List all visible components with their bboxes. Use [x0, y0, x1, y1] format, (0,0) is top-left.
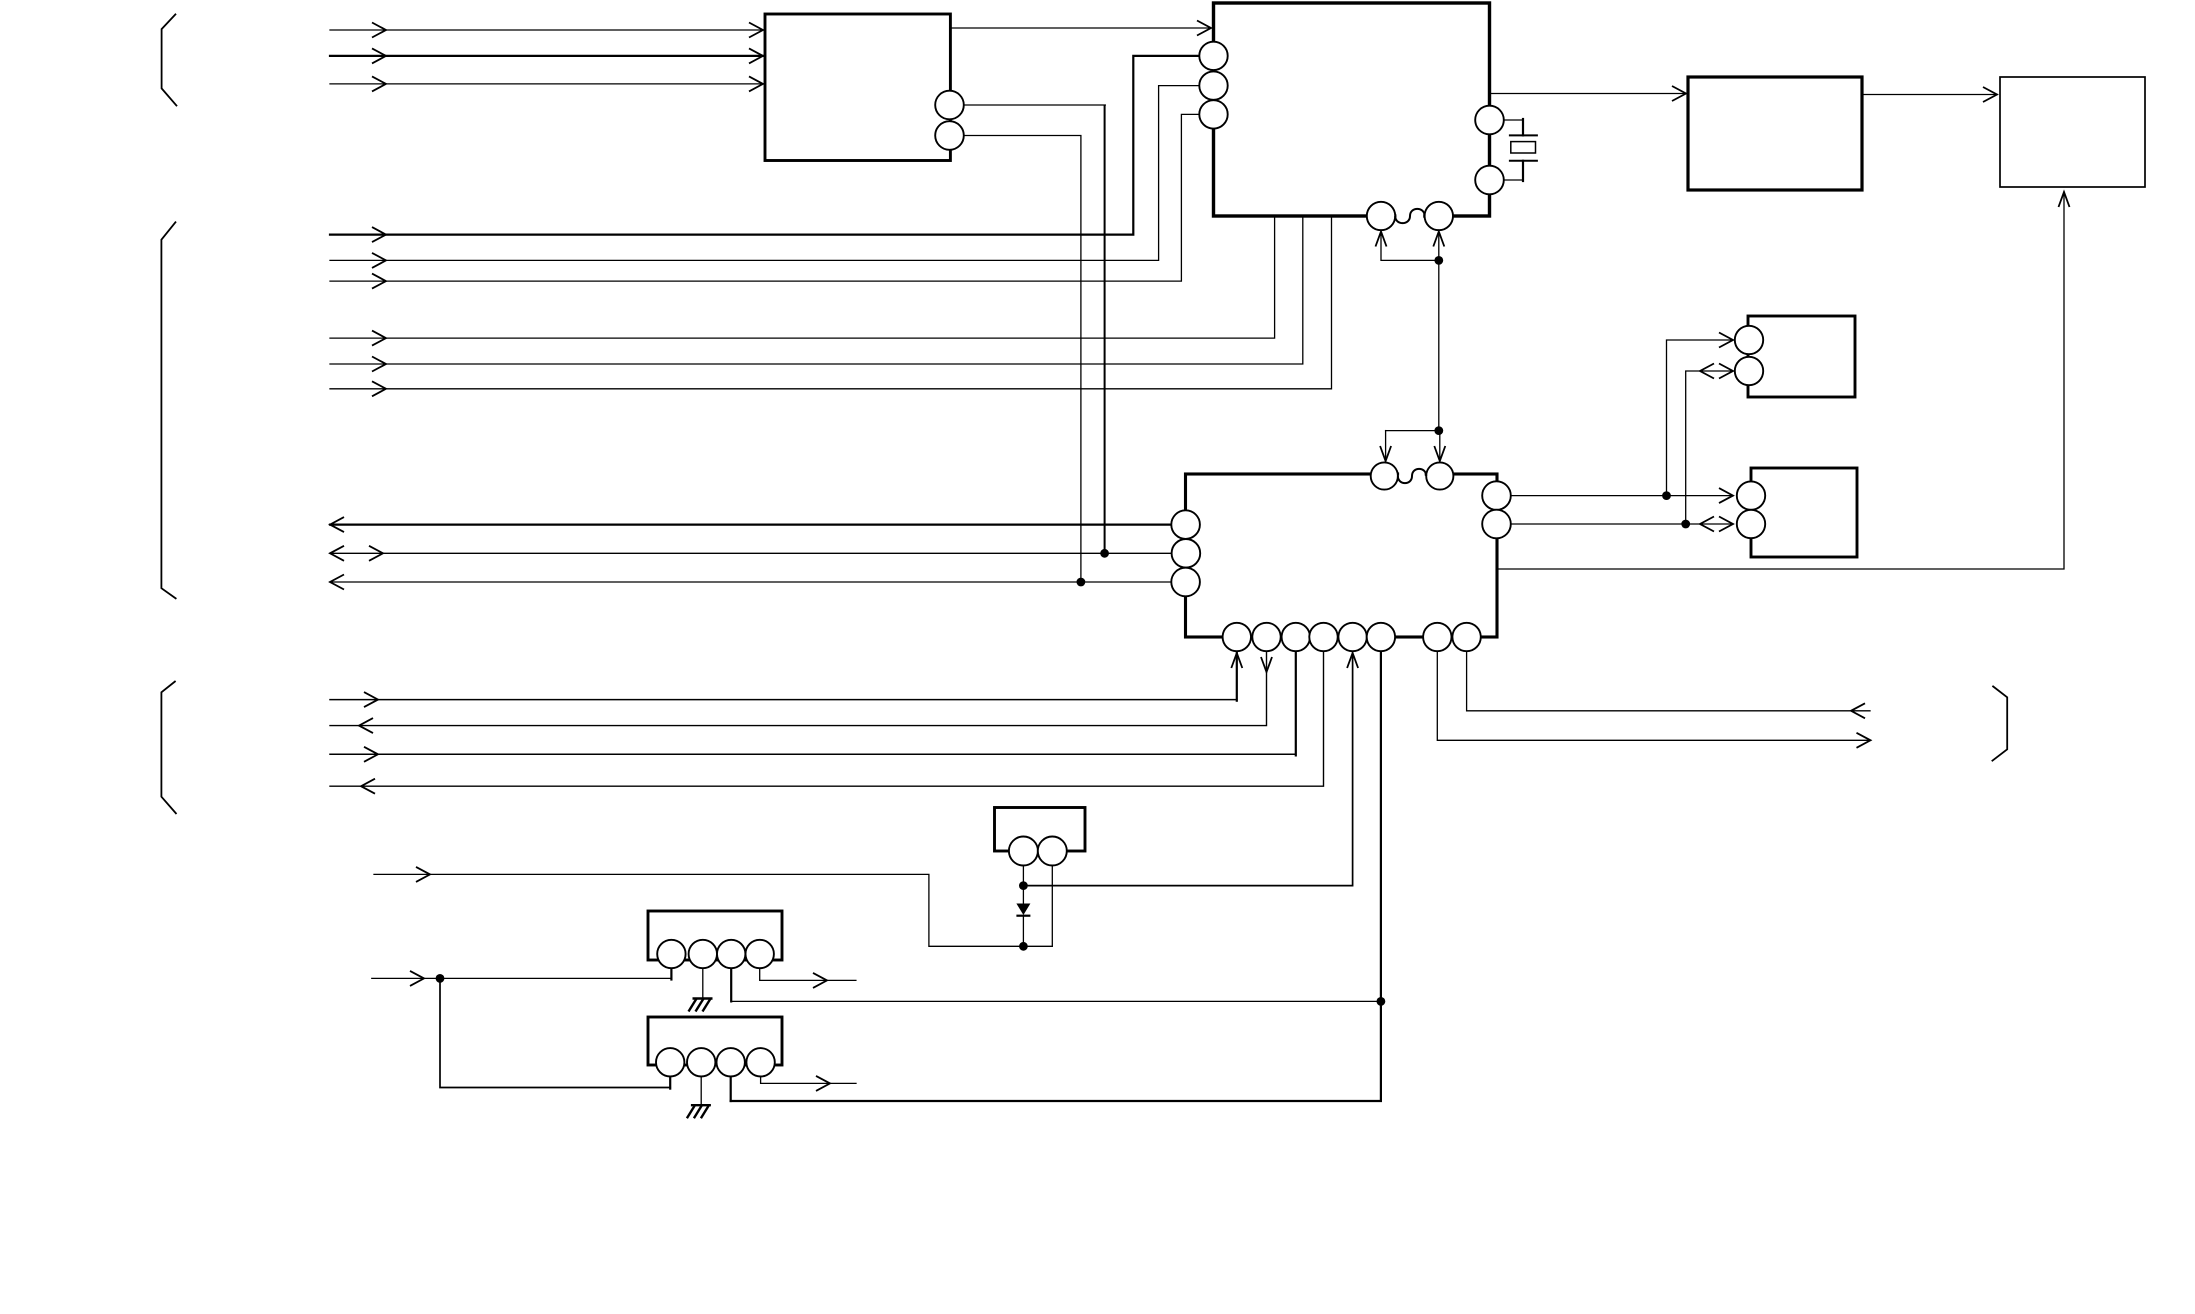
pin circle U2 left 3 [1199, 100, 1227, 128]
crystal X1 bottom plate [1510, 160, 1537, 162]
pin circle U2 bottom B2 [1425, 202, 1453, 230]
ferrite squiggle U2 bottom [1395, 209, 1424, 223]
wire U3 pin6 down to bottom bus (bold) [731, 651, 1381, 1101]
arrow up into U5 [2059, 192, 2070, 207]
wire U3 right edge to U5 bottom [1497, 192, 2064, 569]
pin circle CN1-2 [689, 940, 717, 968]
wire IN11 to CN1 pin1 [372, 977, 672, 979]
arrow IN1 end [749, 23, 763, 38]
arrow out left U3-L2 [330, 546, 344, 561]
wire CN2 pin3 to bottom bus [730, 1077, 732, 1102]
node J4 [1077, 578, 1086, 587]
block BT1 [995, 808, 1086, 852]
wire U1 circle2 to node J4 [964, 136, 1081, 583]
arrow U2 to U4 [1672, 86, 1686, 101]
block CN1 [648, 911, 782, 960]
arrow IN3 mid [372, 76, 386, 91]
arrow down into U3-T2 [1434, 446, 1445, 461]
arrow U4 to U5 [1983, 87, 1997, 102]
node J2 [1434, 426, 1443, 435]
pin circle U3 top T1 [1371, 462, 1398, 489]
wire CN1 pin2 to ground [702, 968, 704, 999]
net U2-B1/B2 to U3-T1/T2 jog [1381, 233, 1439, 260]
wire D1 anode stub [1022, 865, 1024, 904]
arrow IN-P1 [364, 692, 378, 707]
ground GND2 [687, 1105, 711, 1118]
arrow IN2 mid [372, 48, 386, 63]
block U1 [765, 14, 950, 161]
wire diode node to U3 pin5 [1023, 653, 1352, 886]
node J10 [1377, 997, 1386, 1006]
arrow in right U3-L2 [369, 546, 383, 561]
pin circle U3 top T2 [1426, 462, 1453, 489]
arrow IN4 [372, 227, 386, 242]
wire U3 right circle1 to CN-B pin1 and CN-A pin1 [1511, 495, 1734, 497]
arrow OUT-P2 [359, 718, 373, 733]
wire IN4 to U2 circle1 (bold) [330, 56, 1200, 235]
wire IN3 to U1 pin c [330, 83, 765, 85]
wire IN7 to U2 bottom pin x1 [330, 218, 1275, 338]
wire U3 left circle1 out (bold) [330, 523, 1172, 525]
pin circle U3 bottom 5 [1338, 623, 1366, 651]
node J1 [1434, 256, 1443, 265]
arrow up into U3 pin1 [1231, 653, 1242, 668]
bracket left group 2 [161, 222, 176, 599]
arrow IN5 [372, 253, 386, 268]
wire IN1 to U1 pin a [330, 29, 765, 31]
arrow IN2 end [749, 48, 763, 63]
block CN-A [1748, 316, 1855, 397]
node J5 [1662, 491, 1671, 500]
pin circle U3 right 1 [1482, 481, 1511, 510]
pin circle CN-A 2 [1735, 357, 1763, 385]
wire U3 pin4 output [330, 651, 1324, 786]
arrow IN9 [372, 381, 386, 396]
wire CN2 pin4 output [761, 1077, 856, 1084]
wire IN6 to U2 circle3 [330, 114, 1200, 281]
wire CN1 pin4 output [760, 968, 856, 980]
wire IN8 to U2 bottom pin x2 [330, 218, 1303, 364]
arrow bidi CN-A 2 left [1700, 364, 1714, 379]
arrow U1 to U2 [1197, 21, 1211, 36]
wire IN5 to U2 circle2 [330, 86, 1200, 261]
pin circle U3 bottom 8 [1452, 623, 1480, 651]
pin circle U2 right XT1 [1475, 106, 1504, 135]
arrow left end pin8 [1851, 703, 1865, 718]
diode D1 [1016, 904, 1030, 916]
node J7 [436, 974, 445, 983]
CIRCLES-SECTION [656, 42, 1765, 1077]
wire U1 circle1 to node J3 [964, 104, 1106, 106]
bracket left group 1 [162, 14, 177, 107]
arrowheads [330, 21, 2070, 1091]
pin circle CN1-3 [717, 940, 745, 968]
pin circle U3 bottom 2 [1252, 623, 1280, 651]
wire U3 pin2 output [330, 651, 1267, 726]
arrow bidi CN-B 2 left [1700, 517, 1714, 532]
pin circle CN-A 1 [1735, 326, 1763, 354]
wire IN10 to D1 network [374, 874, 1052, 946]
wire BT1 circle2 down [1051, 865, 1053, 946]
arrow up into U2-B1 [1376, 232, 1387, 247]
mask for U2 bottom squiggle gap [1396, 213, 1423, 220]
arrow CN1 out [813, 973, 827, 988]
arrow IN8 [372, 357, 386, 372]
wire U4 to U5 [1862, 94, 1997, 96]
pin circle CN-B 2 [1737, 510, 1765, 538]
pin circle CN2-3 [717, 1048, 745, 1076]
pin circle CN1-1 [657, 940, 685, 968]
arrow into CN-B 1 [1719, 488, 1733, 503]
ground GND1 [689, 999, 713, 1012]
pin circle U3 bottom 1 [1223, 623, 1251, 651]
BOXES-SECTION [648, 3, 2145, 1065]
pin circle CN2-1 [656, 1048, 684, 1076]
arrow CN2 out [816, 1076, 830, 1091]
node J6 [1681, 520, 1690, 529]
wire IN9 to U2 bottom pin x3 [330, 218, 1332, 389]
pin circle U3 bottom 7 [1423, 623, 1451, 651]
arrow out left U3-L3 [330, 575, 344, 590]
arrow down out U3 pin2 [1261, 657, 1272, 672]
pin circle U3 bottom 3 [1282, 623, 1310, 651]
pin circle CN1-4 [746, 940, 774, 968]
arrow IN1 mid [372, 23, 386, 38]
pin circle U3 left 2 [1172, 539, 1201, 568]
block U3 sub IC [1186, 474, 1498, 637]
wire U3 right circle2 to CN-B pin2 and CN-A pin2 [1511, 523, 1734, 525]
arrow OUT-P4 [361, 779, 375, 794]
pin circle BT1-2 [1038, 837, 1067, 866]
node J3 [1100, 549, 1109, 558]
block CN2 [648, 1017, 782, 1065]
pin circle U1-2 [935, 121, 964, 150]
block U4 [1688, 77, 1862, 190]
node J9 [1019, 942, 1028, 951]
wire D1 cathode stub [1022, 916, 1024, 947]
pin circle U3 left 1 [1171, 510, 1200, 539]
pin circle BT1-1 [1009, 837, 1038, 866]
wire U3 pin8 to right edge [1467, 651, 1870, 711]
arrow up into U2-B2 [1433, 232, 1444, 247]
node J8 [1019, 881, 1028, 890]
wire U3 pin7 to right edge [1437, 651, 1870, 740]
wire U3 left circle3 out [330, 581, 1172, 583]
pin circle CN2-2 [687, 1048, 715, 1076]
pin circle U1-1 [935, 91, 964, 120]
wire U2 right to U4 [1490, 93, 1687, 95]
wire U1 out to U2 top [950, 27, 1211, 29]
arrow down into U3-T1 [1380, 446, 1391, 461]
arrow IN-P3 [364, 747, 378, 762]
crystal X1 body [1511, 142, 1536, 153]
arrow bidi CN-A 2 right [1719, 364, 1733, 379]
pin circle U2 right XT2 [1475, 166, 1504, 195]
arrow bidi CN-B 2 right [1719, 517, 1733, 532]
pin circle U3 bottom 6 [1367, 623, 1395, 651]
mask for U3 top squiggle gap [1399, 471, 1425, 478]
pin circle CN2-4 [746, 1048, 774, 1076]
block U5 [2000, 77, 2145, 187]
pin circle U3 bottom 4 [1309, 623, 1337, 651]
pin circle U3 left 3 [1171, 568, 1200, 597]
block CN-B [1751, 468, 1857, 557]
TOP-SECTION [161, 14, 2007, 814]
arrow IN7 [372, 331, 386, 346]
arrow IN3 end [749, 76, 763, 91]
wire node to CN2 pin1 [440, 978, 670, 1087]
bracket right group [1992, 686, 2008, 761]
wire U3 pin3 input (bold) [330, 753, 1296, 755]
pin circle CN-B 1 [1737, 481, 1765, 509]
bracket left group 3 [161, 681, 176, 814]
wire IN2 to U1 pin b (bold) [330, 55, 765, 57]
pin circle U2 left 1 [1199, 42, 1227, 70]
wire CN1 pin3 to bus node (bold riser) [730, 968, 732, 1001]
ferrite squiggle U3 top [1398, 469, 1426, 483]
pin circle U3 right 2 [1482, 510, 1511, 539]
arrow out left U3-L1 [330, 517, 344, 532]
pin circle U2 left 2 [1199, 71, 1227, 99]
arrow IN6 [372, 274, 386, 289]
arrow up into U3 pin5 [1347, 653, 1358, 668]
crystal X1 top plate [1510, 134, 1537, 136]
wire U3 left circle2 bidirectional [330, 552, 1172, 554]
arrow IN10 [416, 867, 430, 882]
pin circle U2 bottom B1 [1367, 202, 1395, 230]
arrow right end pin7 [1857, 733, 1871, 748]
arrow IN11 [410, 971, 424, 986]
wire CN2 pin2 to ground [700, 1077, 702, 1106]
crystal X1 wiring [1504, 119, 1522, 121]
block U2 main IC [1214, 3, 1490, 216]
arrow into CN-A 1 [1719, 333, 1733, 348]
wire U3 pin1 input (bold) [330, 699, 1237, 701]
